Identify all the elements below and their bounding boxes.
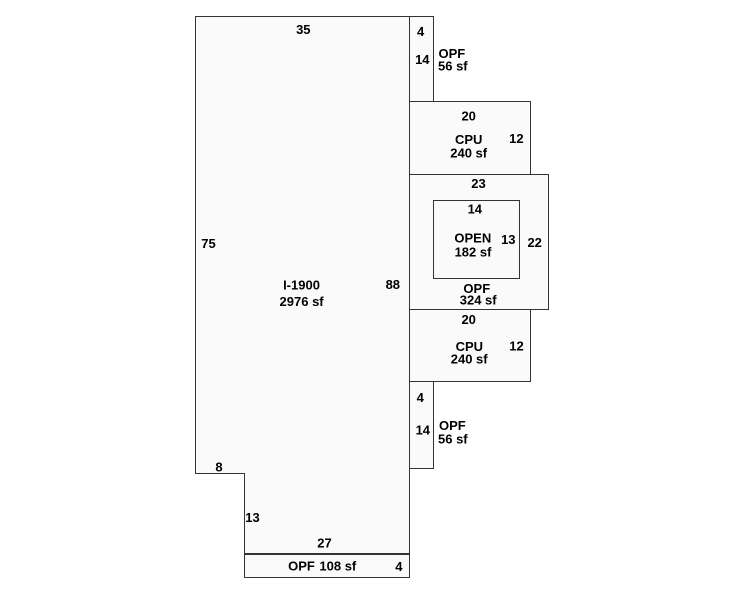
svg-text:14: 14 (415, 52, 430, 67)
room OPEN 182 sf inner (434, 201, 520, 279)
svg-text:56 sf: 56 sf (438, 59, 468, 74)
svg-text:240 sf: 240 sf (450, 145, 488, 160)
svg-text:35: 35 (296, 22, 310, 37)
svg-text:OPEN: OPEN (454, 231, 491, 246)
room I-1900 outline (196, 17, 410, 554)
svg-text:14: 14 (416, 423, 431, 438)
svg-text:13: 13 (501, 232, 515, 247)
svg-text:4: 4 (417, 24, 425, 39)
svg-text:27: 27 (317, 535, 331, 550)
svg-text:I-1900: I-1900 (283, 277, 320, 292)
svg-text:4: 4 (417, 390, 425, 405)
svg-text:75: 75 (201, 236, 215, 251)
svg-text:12: 12 (509, 131, 523, 146)
svg-text:182 sf: 182 sf (455, 244, 493, 259)
room OPF 56 sf bottom (410, 382, 434, 469)
svg-text:20: 20 (461, 108, 475, 123)
svg-text:8: 8 (215, 460, 222, 475)
svg-text:20: 20 (461, 312, 475, 327)
svg-text:56 sf: 56 sf (438, 431, 468, 446)
svg-text:4: 4 (395, 559, 403, 574)
room CPU 240 sf bottom (410, 310, 531, 382)
svg-text:22: 22 (527, 235, 541, 250)
svg-text:240 sf: 240 sf (451, 352, 489, 367)
svg-text:23: 23 (471, 176, 485, 191)
svg-text:OPF: OPF (288, 559, 315, 574)
svg-text:13: 13 (245, 510, 259, 525)
wall thick bottom line of I-1900 (244, 553, 410, 555)
svg-text:108 sf: 108 sf (319, 559, 357, 574)
svg-text:14: 14 (468, 202, 483, 217)
svg-text:324 sf: 324 sf (460, 292, 498, 307)
svg-text:12: 12 (509, 338, 523, 353)
room OPF 56 sf top (410, 17, 434, 102)
svg-text:88: 88 (386, 277, 400, 292)
room OPF 324 sf (410, 175, 549, 310)
svg-text:2976 sf: 2976 sf (280, 294, 325, 309)
room CPU 240 sf top (410, 102, 531, 175)
room OPF 108 sf strip (245, 554, 410, 578)
